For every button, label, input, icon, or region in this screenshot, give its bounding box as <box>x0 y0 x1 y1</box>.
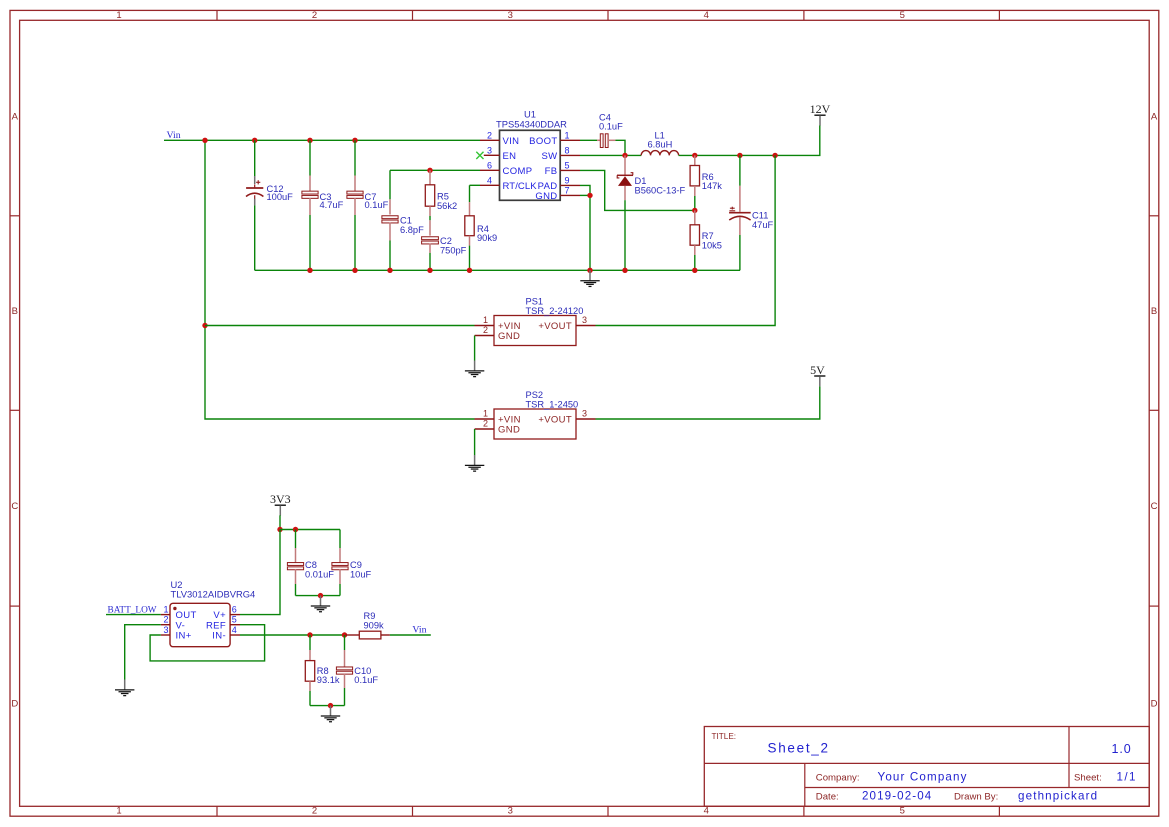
svg-text:A: A <box>1151 111 1158 122</box>
wire R5 to C2 <box>429 216 431 220</box>
IC U1 TPS54340DDAR buck regulator <box>500 130 561 200</box>
junction gnd rail x625 <box>622 268 627 273</box>
svg-text:3: 3 <box>582 315 587 325</box>
svg-text:C: C <box>11 501 18 512</box>
svg-text:Vin: Vin <box>167 130 181 141</box>
resistor R5 (56k2) <box>429 170 431 185</box>
pin 6 COMP <box>480 169 500 171</box>
svg-text:Company:: Company: <box>816 773 860 784</box>
svg-text:9: 9 <box>565 175 570 185</box>
svg-text:6: 6 <box>232 604 237 614</box>
capacitor C2 (750pF) <box>429 220 431 235</box>
svg-text:+VOUT: +VOUT <box>538 321 572 332</box>
svg-text:2: 2 <box>483 325 488 335</box>
pin 7 GND <box>560 194 580 196</box>
svg-text:C2: C2 <box>440 236 452 246</box>
svg-text:R9: R9 <box>364 611 376 621</box>
junction gnd rail x390 <box>387 268 392 273</box>
svg-text:Drawn By:: Drawn By: <box>954 792 998 803</box>
pin 1 +VIN of PS1 <box>475 325 495 327</box>
ground at PS2 <box>474 455 476 465</box>
pin 9 PAD <box>560 184 580 186</box>
pin 3 IN+ <box>161 634 170 636</box>
svg-text:1: 1 <box>565 130 570 140</box>
pin 2 GND of PS1 <box>475 335 494 337</box>
svg-text:GND: GND <box>535 191 557 202</box>
svg-text:4: 4 <box>704 806 709 817</box>
capacitor C4 (0.1uF) <box>580 139 597 141</box>
wire converter ground rail <box>255 269 740 271</box>
svg-text:A: A <box>12 111 19 122</box>
junction gnd rail x469.5 <box>467 268 472 273</box>
svg-text:COMP: COMP <box>503 166 533 177</box>
pin 3 +VOUT of PS1 <box>576 325 596 327</box>
wire D1 anode to gnd rail <box>624 200 626 270</box>
svg-text:909k: 909k <box>364 620 385 630</box>
capacitor C7 (0.1uF) <box>354 140 356 175</box>
inductor L1 (6.8uH) <box>641 151 678 156</box>
wire PAD to GND <box>580 185 590 195</box>
svg-text:Sheet:: Sheet: <box>1074 773 1102 784</box>
svg-text:3: 3 <box>163 625 168 635</box>
junction IN-/R8 <box>307 632 312 637</box>
capacitor C9 (10uF) <box>339 530 341 549</box>
junction IN-/C10 <box>342 632 347 637</box>
svg-text:47uF: 47uF <box>752 220 774 230</box>
junction gnd rail x694.8 <box>692 268 697 273</box>
resistor R8 (93.1k) <box>309 635 311 650</box>
svg-text:3: 3 <box>508 10 513 21</box>
pin 3 +VOUT of PS2 <box>576 418 596 420</box>
pin 4 RT/CLK <box>480 184 500 186</box>
wire 3V3 down to U2 V+ <box>240 530 280 615</box>
capacitor C3 (4.7uF) <box>309 140 311 175</box>
svg-text:93.1k: 93.1k <box>317 675 340 685</box>
svg-text:750pF: 750pF <box>440 245 467 255</box>
junction gnd rail x310 <box>307 268 312 273</box>
svg-text:0.01uF: 0.01uF <box>305 570 334 580</box>
svg-text:6.8pF: 6.8pF <box>400 225 424 235</box>
no-connect flag on EN <box>476 152 483 159</box>
svg-text:12V: 12V <box>810 102 831 116</box>
pin 5 FB <box>560 169 580 171</box>
svg-text:7: 7 <box>565 185 570 195</box>
svg-text:3V3: 3V3 <box>270 492 291 506</box>
pin 5 REF <box>230 624 240 626</box>
svg-text:5: 5 <box>232 614 237 624</box>
svg-text:IN-: IN- <box>212 631 226 642</box>
junction Vin rail x310 (C3) <box>307 138 312 143</box>
wire FB net <box>580 170 695 210</box>
wire Vin top rail <box>164 139 480 141</box>
svg-text:TSR_2-24120: TSR_2-24120 <box>526 306 584 316</box>
svg-text:147k: 147k <box>702 181 723 191</box>
svg-text:TITLE:: TITLE: <box>712 732 737 741</box>
svg-text:1.0: 1.0 <box>1112 742 1132 756</box>
svg-text:Vin: Vin <box>412 624 426 635</box>
wire PS2 +VOUT to 5V flag <box>596 386 820 419</box>
junction Vin rail x254.7 (C12) <box>252 138 257 143</box>
svg-text:R7: R7 <box>702 231 714 241</box>
pin 3 EN <box>484 154 500 156</box>
ground at U1 <box>589 270 591 280</box>
junction C8/C9 gnd <box>318 593 323 598</box>
svg-text:VIN: VIN <box>503 136 520 147</box>
junction SW/PS1 branch <box>772 153 777 158</box>
svg-text:REF: REF <box>206 620 226 631</box>
svg-text:Sheet_2: Sheet_2 <box>768 741 830 756</box>
svg-text:+VOUT: +VOUT <box>538 415 572 426</box>
diode D1 B560C-13-F schottky <box>624 155 626 175</box>
svg-text:2: 2 <box>312 10 317 21</box>
wire SW to L1 <box>580 154 641 156</box>
junction gnd rail x355 <box>352 268 357 273</box>
svg-text:6: 6 <box>487 160 492 170</box>
svg-text:GND: GND <box>498 331 520 342</box>
wire IN+ REF loop <box>150 625 265 661</box>
resistor R6 (147k) <box>694 155 696 165</box>
svg-text:56k2: 56k2 <box>437 201 457 211</box>
svg-text:3: 3 <box>508 806 513 817</box>
capacitor C11 (47uF electrolytic) <box>739 155 741 185</box>
capacitor C8 (0.01uF) <box>295 530 297 549</box>
svg-text:2: 2 <box>163 614 168 624</box>
junction SW/R6 <box>692 153 697 158</box>
pin 8 SW <box>560 154 580 156</box>
wire V- to ground <box>125 625 161 680</box>
junction SW/D1 <box>622 153 627 158</box>
capacitor C1 (6.8pF) <box>389 170 391 199</box>
wire 3V3 to C8/C9 top <box>280 529 340 531</box>
svg-text:TSR_1-2450: TSR_1-2450 <box>526 399 579 409</box>
svg-text:2: 2 <box>483 419 488 429</box>
svg-text:RT/CLK: RT/CLK <box>503 181 538 192</box>
svg-text:5: 5 <box>900 806 905 817</box>
svg-text:GND: GND <box>498 425 520 436</box>
junction Vin/PS1 <box>202 323 207 328</box>
title block <box>704 727 1149 807</box>
svg-text:D: D <box>1151 698 1158 709</box>
wire C8/C9 bottom <box>296 595 341 597</box>
wire R8/C10 bottom <box>310 705 345 707</box>
pin 4 IN- <box>230 634 240 636</box>
svg-text:C1: C1 <box>400 216 412 226</box>
svg-text:B: B <box>12 306 18 317</box>
svg-text:3: 3 <box>582 409 587 419</box>
junction Vin rail x205 <box>202 138 207 143</box>
wire Vin to PS1 +VIN <box>205 325 475 327</box>
wire GND pin to gnd rail <box>580 194 590 196</box>
capacitor C10 (0.1uF) <box>344 635 346 650</box>
wire COMP net <box>390 169 480 171</box>
svg-text:SW: SW <box>541 151 557 162</box>
svg-text:8: 8 <box>565 145 570 155</box>
pin 1 +VIN of PS2 <box>475 418 495 420</box>
svg-text:C9: C9 <box>350 560 362 570</box>
svg-text:5: 5 <box>900 10 905 21</box>
svg-text:B560C-13-F: B560C-13-F <box>635 185 686 195</box>
wire L1 to 12V <box>679 126 820 156</box>
resistor R7 (10k5) <box>694 210 696 224</box>
svg-text:6.8uH: 6.8uH <box>648 140 673 150</box>
svg-text:EN: EN <box>503 151 517 162</box>
svg-text:1: 1 <box>163 604 168 614</box>
junction PAD/GND <box>587 193 592 198</box>
svg-text:D: D <box>11 698 18 709</box>
svg-text:100uF: 100uF <box>267 192 294 202</box>
svg-text:10uF: 10uF <box>350 570 372 580</box>
svg-text:FB: FB <box>545 166 558 177</box>
svg-text:TLV3012AIDBVRG4: TLV3012AIDBVRG4 <box>171 588 256 599</box>
junction SW/C11 <box>737 153 742 158</box>
junction gnd rail x590 <box>587 268 592 273</box>
svg-text:1: 1 <box>116 10 121 21</box>
junction 3V3/C8 <box>293 527 298 532</box>
svg-text:1/1: 1/1 <box>1117 771 1137 784</box>
voltage regulator PS1 TSR_2-24120 <box>494 316 576 346</box>
svg-text:0.1uF: 0.1uF <box>354 675 378 685</box>
svg-text:2: 2 <box>312 806 317 817</box>
svg-text:TPS54340DDAR: TPS54340DDAR <box>496 118 567 129</box>
svg-text:5: 5 <box>565 160 570 170</box>
wire PS1 GND down <box>474 336 476 361</box>
wire IN- net <box>240 634 345 636</box>
svg-text:Date:: Date: <box>816 792 839 803</box>
wire 3V3 node <box>279 515 281 529</box>
junction FB/R6/R7 <box>692 208 697 213</box>
ground at R8/C10 <box>330 706 332 716</box>
wire PS2 GND down <box>474 429 476 455</box>
svg-text:90k9: 90k9 <box>477 233 497 243</box>
svg-text:10k5: 10k5 <box>702 241 722 251</box>
junction 3V3 x280 <box>277 527 282 532</box>
svg-text:4.7uF: 4.7uF <box>320 200 344 210</box>
pin 2 V- <box>161 624 170 626</box>
svg-text:B: B <box>1151 306 1157 317</box>
svg-text:5V: 5V <box>810 363 825 377</box>
svg-text:0.1uF: 0.1uF <box>365 200 389 210</box>
ground at U2 <box>124 680 126 690</box>
svg-text:Your Company: Your Company <box>878 771 968 784</box>
pin 2 GND of PS2 <box>475 428 494 430</box>
resistor R9 (909k) <box>346 634 360 636</box>
svg-text:1: 1 <box>483 409 488 419</box>
junction R8/C10 gnd <box>328 703 333 708</box>
svg-text:3: 3 <box>487 145 492 155</box>
pin 2 VIN <box>480 139 500 141</box>
junction COMP/R5 <box>427 168 432 173</box>
wire Vin left drop to PS1/PS2 <box>205 140 475 419</box>
wire C4 to SW node <box>616 140 626 155</box>
wire PS1 +VOUT to 12V rail <box>596 155 776 325</box>
svg-text:1: 1 <box>116 806 121 817</box>
svg-text:gethnpickard: gethnpickard <box>1018 790 1098 803</box>
svg-text:V-: V- <box>176 620 186 631</box>
svg-text:1: 1 <box>483 315 488 325</box>
svg-text:BOOT: BOOT <box>529 136 557 147</box>
svg-text:IN+: IN+ <box>176 631 192 642</box>
pin 1 BOOT <box>560 139 580 141</box>
junction Vin rail x355 (C7) <box>352 138 357 143</box>
junction gnd rail x430 <box>427 268 432 273</box>
capacitor C12 (100uF electrolytic) <box>254 140 256 176</box>
svg-text:2: 2 <box>487 130 492 140</box>
svg-text:4: 4 <box>487 175 492 185</box>
ground at C8/C9 <box>320 596 322 606</box>
resistor R4 (90k9) <box>470 184 481 186</box>
svg-text:2019-02-04: 2019-02-04 <box>862 790 932 803</box>
pin 6 V+ <box>230 614 240 616</box>
ground at PS1 <box>474 361 476 371</box>
svg-text:C8: C8 <box>305 560 317 570</box>
svg-text:4: 4 <box>704 10 709 21</box>
wire BATT_LOW to OUT <box>106 614 161 616</box>
wire R9 to Vin <box>390 634 431 636</box>
svg-text:C: C <box>1151 501 1158 512</box>
svg-text:0.1uF: 0.1uF <box>599 122 623 132</box>
svg-text:4: 4 <box>232 625 237 635</box>
comparator U2 TLV3012AIDBVRG4 <box>170 603 230 646</box>
voltage regulator PS2 TSR_1-2450 <box>494 409 576 439</box>
pin 1 OUT <box>161 614 170 616</box>
